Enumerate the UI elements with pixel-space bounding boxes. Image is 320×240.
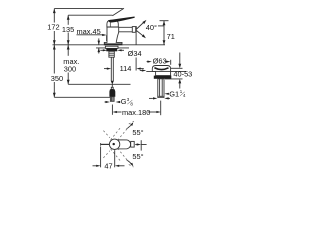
dimension line 350 (53, 45, 56, 97)
plan view aerator tab (131, 141, 135, 147)
svg-text:40-53: 40-53 (173, 70, 192, 79)
hose crimp cone (111, 81, 114, 85)
svg-text:40°: 40° (146, 23, 157, 32)
threaded shank (109, 51, 114, 57)
swivel dashed lines lower (103, 148, 133, 167)
svg-text:55°: 55° (132, 152, 143, 161)
drain locknut body (156, 71, 171, 75)
faucet base plate shadow (104, 43, 122, 44)
drain leader arrow (140, 70, 143, 72)
plan view aerator dimension arrow (135, 144, 137, 146)
swivel dashed lines upper (103, 121, 134, 140)
G1 1/4 leader arrow (167, 93, 169, 95)
svg-text:135: 135 (62, 25, 74, 34)
swivel fan lines 40deg (137, 22, 145, 30)
deck bottom line (96, 47, 129, 49)
hose neck (111, 84, 113, 87)
dimension line max.300 (67, 45, 70, 84)
label G1 1/4 (169, 89, 186, 99)
svg-text:172: 172 (47, 23, 59, 32)
mounting nut below deck (105, 46, 118, 48)
plan view center dot (113, 143, 115, 145)
max.300 bottom extension line (68, 83, 130, 85)
dimension 172 extension line (raised lever level) (54, 8, 123, 10)
svg-text:300: 300 (64, 64, 76, 73)
pop-up rod tick (106, 35, 108, 41)
drain plug gap (154, 68, 168, 70)
plan view pop-up rod (101, 143, 110, 145)
dimension 135 extension line (68, 14, 112, 16)
aerator extension line down (135, 33, 137, 45)
lever raised position line (112, 8, 124, 16)
dimension 114 (104, 68, 144, 70)
svg-text:114: 114 (120, 64, 132, 73)
max.45 thickness arrows (98, 38, 101, 53)
G3/8 arrows (105, 101, 121, 103)
47 extension lines (100, 147, 102, 168)
label G3/8 (121, 97, 134, 107)
dimension 71 (160, 21, 169, 45)
dimension line 135 (67, 15, 70, 45)
hose connector nut (109, 89, 115, 97)
dimension 40-53 (178, 53, 181, 89)
svg-text:8: 8 (130, 102, 133, 107)
swivel arc arrow lower (127, 160, 133, 166)
svg-text:3: 3 (127, 97, 130, 102)
svg-text:4: 4 (183, 93, 186, 98)
dia34 arrows (100, 49, 124, 51)
supply hose (110, 57, 112, 81)
leader from 40deg to 71 line (158, 25, 164, 27)
drain deck line (146, 70, 186, 72)
svg-text:47: 47 (104, 162, 112, 171)
deck top line (53, 44, 166, 46)
dimension max.180 (112, 101, 160, 116)
drain tailpipe (158, 79, 164, 98)
svg-text:Ø63: Ø63 (153, 57, 167, 66)
svg-text:max.180: max.180 (122, 108, 150, 117)
cartridge cap (107, 20, 118, 27)
drain hex nut (154, 76, 172, 79)
hose nipple (111, 87, 113, 89)
plan view spout body (115, 140, 131, 149)
dimension 47 (93, 165, 125, 167)
spout (119, 27, 133, 32)
svg-text:55°: 55° (132, 128, 143, 137)
svg-text:350: 350 (51, 74, 63, 83)
svg-text:G1: G1 (169, 89, 179, 98)
aerator (132, 27, 136, 33)
hose thread end (110, 97, 114, 102)
faucet body column (104, 27, 122, 45)
svg-text:71: 71 (167, 32, 175, 41)
svg-text:Ø34: Ø34 (128, 49, 142, 58)
pipe end arrows (167, 97, 170, 99)
swivel arc arrow upper (127, 123, 133, 129)
dia63 arrow (165, 61, 167, 63)
dimension line 172 (53, 9, 56, 45)
drain flange (152, 66, 170, 72)
plan view valve circle (109, 139, 119, 149)
40-53 extension lines (171, 67, 183, 69)
350 bottom extension line (54, 96, 112, 98)
lever handle blade (108, 17, 134, 23)
